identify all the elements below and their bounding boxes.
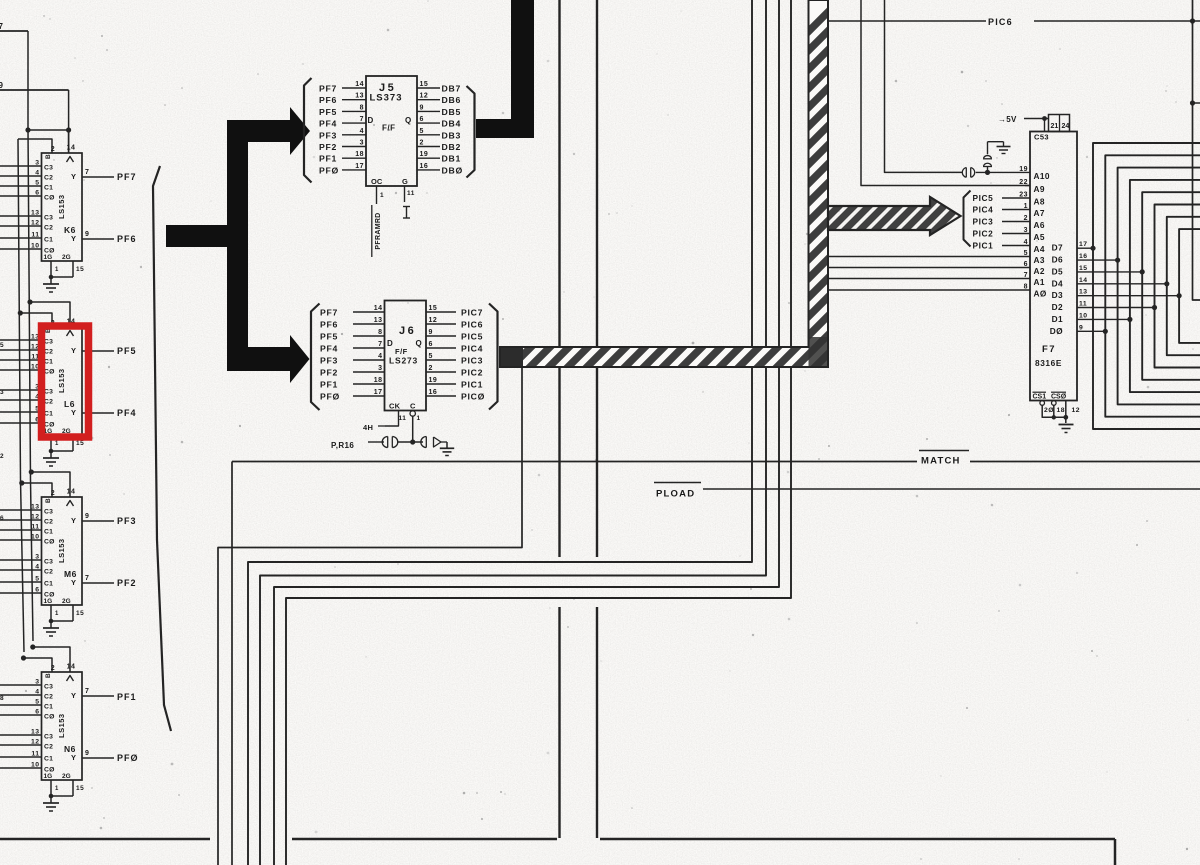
svg-text:18: 18: [1057, 407, 1066, 414]
svg-text:11: 11: [31, 524, 39, 531]
F7 power pins box: [1049, 115, 1070, 132]
svg-text:8: 8: [378, 329, 382, 336]
bus wire (x752 to x248): [248, 0, 752, 865]
J5 input wire PF2 pin 3: [342, 146, 366, 148]
svg-text:4H: 4H: [363, 423, 373, 432]
svg-text:PF7: PF7: [320, 308, 338, 318]
svg-text:2Ø: 2Ø: [1044, 407, 1054, 414]
svg-text:PFØ: PFØ: [117, 753, 139, 763]
wire K6 pin14 drop: [68, 90, 70, 153]
svg-text:C1: C1: [44, 359, 53, 366]
svg-text:A6: A6: [1034, 220, 1045, 230]
svg-text:11: 11: [1079, 301, 1087, 308]
svg-text:Y: Y: [71, 578, 77, 587]
svg-text:2G: 2G: [62, 254, 71, 261]
wire x522 down-left-down: [218, 367, 522, 865]
connector pair on stub: [987, 167, 989, 172]
svg-text:PFRAMRD: PFRAMRD: [375, 212, 382, 249]
svg-text:13: 13: [31, 210, 40, 217]
svg-text:7: 7: [360, 116, 364, 123]
svg-text:2G: 2G: [62, 598, 71, 605]
svg-text:C2: C2: [44, 349, 53, 356]
svg-text:6: 6: [429, 341, 433, 348]
svg-text:C3: C3: [44, 734, 53, 741]
net 7 entry wire: [0, 30, 28, 32]
wire select cross y130: [28, 129, 69, 131]
J6 input wire PFØ pin 17: [353, 395, 385, 397]
J5 input wire PF5 pin 8: [342, 110, 366, 112]
signal PLOAD wire: [703, 488, 1200, 490]
svg-text:PF1: PF1: [117, 692, 137, 702]
wire PIC to F7: [1002, 233, 1030, 235]
mux K6 (LS153): [42, 153, 83, 261]
bus arrowhead to J5: [290, 107, 310, 155]
mux M6 (LS153): [42, 497, 83, 605]
bus wire vertical x597: [596, 0, 598, 557]
bus wire (x766 to x260): [260, 0, 766, 865]
svg-text:1G: 1G: [44, 598, 53, 605]
svg-text:A7: A7: [1034, 208, 1045, 218]
svg-text:C2: C2: [44, 519, 53, 526]
J6 input wire PF6 pin 13: [353, 323, 385, 325]
J5 right brace: [467, 86, 475, 178]
svg-text:1: 1: [55, 786, 59, 792]
svg-text:Y: Y: [71, 346, 77, 355]
svg-text:PF5: PF5: [320, 332, 338, 342]
latch J6 box: [385, 301, 427, 411]
junction: [985, 170, 990, 175]
wire select A branch: [33, 647, 70, 672]
junction: [66, 127, 71, 132]
svg-text:7: 7: [85, 169, 89, 176]
wire vertical x861 to A9: [861, 0, 1030, 186]
svg-text:11: 11: [407, 190, 415, 197]
svg-text:13: 13: [1079, 289, 1088, 296]
svg-text:B: B: [45, 498, 52, 503]
svg-text:12: 12: [31, 514, 40, 521]
svg-text:3: 3: [378, 365, 382, 372]
wire: [397, 441, 423, 443]
svg-text:PF1: PF1: [320, 380, 338, 390]
svg-text:14: 14: [67, 664, 76, 671]
svg-text:PF1: PF1: [319, 154, 337, 164]
data bus loop 2 (D): [1118, 168, 1200, 405]
J6 output wire PIC5 pin 9: [426, 335, 456, 337]
svg-text:F/F: F/F: [382, 124, 396, 133]
svg-text:PLOAD: PLOAD: [656, 489, 695, 500]
svg-text:Y: Y: [71, 691, 77, 700]
svg-text:F7: F7: [1042, 344, 1056, 355]
svg-text:6: 6: [35, 709, 39, 716]
svg-text:15: 15: [420, 81, 429, 88]
svg-text:C3: C3: [44, 339, 53, 346]
J5 output wire DB4 pin 6: [417, 122, 440, 124]
connector pair on A10: [965, 168, 967, 178]
svg-text:2: 2: [51, 665, 55, 672]
svg-text:16: 16: [420, 163, 429, 170]
svg-text:10: 10: [31, 762, 40, 769]
wire PIC to F7: [1002, 197, 1030, 199]
svg-text:19: 19: [429, 377, 438, 384]
svg-text:1: 1: [417, 415, 421, 422]
svg-text:Y: Y: [71, 516, 77, 525]
svg-text:3: 3: [360, 140, 364, 147]
svg-text:11: 11: [31, 751, 39, 758]
svg-text:LS273: LS273: [389, 356, 418, 366]
svg-text:CØ: CØ: [44, 714, 55, 721]
F7 ground: [1059, 424, 1074, 426]
svg-text:PF7: PF7: [319, 84, 337, 94]
svg-text:PIC6: PIC6: [461, 320, 483, 330]
svg-text:PF4: PF4: [320, 344, 338, 354]
ground (P,R16): [446, 442, 448, 448]
svg-text:PIC3: PIC3: [461, 356, 483, 366]
select bus vertical A: [28, 31, 33, 641]
svg-text:PIC5: PIC5: [461, 332, 483, 342]
J6 input wire PF3 pin 4: [353, 359, 385, 361]
svg-text:PF2: PF2: [320, 368, 338, 378]
svg-text:17: 17: [374, 389, 383, 396]
svg-text:16: 16: [429, 389, 438, 396]
signal PIC6 wire: [828, 20, 986, 22]
J5 output wire DB1 pin 19: [417, 157, 440, 159]
junction: [21, 655, 26, 660]
svg-text:PF6: PF6: [319, 95, 337, 105]
svg-text:19: 19: [420, 151, 429, 158]
svg-text:5: 5: [35, 576, 39, 583]
svg-text:DBØ: DBØ: [442, 165, 463, 175]
J6 input wire PF7 pin 14: [353, 311, 385, 313]
svg-text:C1: C1: [44, 704, 53, 711]
svg-text:C3: C3: [44, 684, 53, 691]
svg-text:A10: A10: [1034, 171, 1050, 181]
svg-text:7: 7: [85, 688, 89, 695]
J5 output wire DB7 pin 15: [417, 87, 440, 89]
ground (bypass): [1003, 142, 1005, 147]
svg-text:14: 14: [67, 489, 76, 496]
svg-text:C1: C1: [44, 411, 53, 418]
svg-text:14: 14: [67, 145, 76, 152]
svg-text:C2: C2: [44, 569, 53, 576]
wire K6 pin14 stub: [68, 130, 70, 153]
svg-text:15: 15: [76, 785, 84, 792]
J6 input wire PF5 pin 8: [353, 335, 385, 337]
J6 output wire PIC6 pin 12: [426, 323, 456, 325]
svg-text:LS373: LS373: [370, 93, 403, 104]
svg-text:6: 6: [420, 116, 424, 123]
J6 input wire PF2 pin 3: [353, 371, 385, 373]
svg-text:14: 14: [1079, 277, 1088, 284]
svg-text:A3: A3: [1034, 255, 1045, 265]
svg-text:PIC5: PIC5: [973, 193, 994, 203]
J5 output wire DB5 pin 9: [417, 110, 440, 112]
svg-text:18: 18: [374, 377, 383, 384]
svg-text:4: 4: [35, 564, 39, 571]
svg-text:A1: A1: [1034, 277, 1045, 287]
svg-text:DB1: DB1: [442, 154, 461, 164]
F7 pin 12: [1065, 401, 1067, 424]
junction: [18, 310, 23, 315]
svg-text:PFØ: PFØ: [320, 392, 340, 402]
svg-text:C3: C3: [44, 165, 53, 172]
J6 right brace: [489, 304, 498, 410]
svg-text:8: 8: [0, 695, 4, 702]
svg-text:2G: 2G: [62, 773, 71, 780]
J6 left brace: [311, 304, 320, 411]
svg-text:D6: D6: [1052, 255, 1063, 265]
svg-text:CØ: CØ: [44, 369, 55, 376]
svg-text:Q: Q: [405, 116, 412, 125]
svg-text:10: 10: [1079, 312, 1088, 319]
svg-text:C1: C1: [44, 237, 53, 244]
mux L6 (LS153): [42, 327, 83, 435]
bus wire vertical x559: [558, 0, 560, 557]
svg-text:15: 15: [1079, 265, 1088, 272]
svg-text:1: 1: [55, 441, 59, 447]
J5 output wire DBØ pin 16: [417, 169, 440, 171]
svg-text:C2: C2: [44, 399, 53, 406]
svg-text:13: 13: [31, 504, 40, 511]
svg-text:2: 2: [429, 365, 433, 372]
signal PFRAMRD (active low): [371, 205, 373, 257]
signal MATCH wire: [232, 461, 917, 463]
connector pair (P,R16): [387, 437, 389, 448]
svg-text:15: 15: [76, 440, 84, 447]
J6 output wire PIC7 pin 15: [426, 311, 456, 313]
svg-text:1G: 1G: [44, 773, 53, 780]
svg-text:C3: C3: [44, 215, 53, 222]
svg-text:C: C: [410, 402, 416, 411]
svg-text:CSØ: CSØ: [1051, 394, 1067, 401]
svg-text:4: 4: [360, 128, 364, 135]
wire address from hatched bus: [828, 278, 1030, 280]
data bus loop 1 (D): [1105, 155, 1200, 416]
mux N6 (LS153): [42, 672, 83, 780]
svg-text:LS153: LS153: [57, 368, 66, 393]
svg-text:LS153: LS153: [57, 713, 66, 738]
junction: [1190, 18, 1195, 23]
svg-text:PIC6: PIC6: [988, 17, 1013, 27]
junction: [25, 127, 30, 132]
svg-text:13: 13: [355, 93, 364, 100]
svg-text:PF3: PF3: [117, 516, 137, 526]
svg-text:A4: A4: [1034, 244, 1045, 254]
J6 output wire PIC2 pin 2: [426, 371, 456, 373]
data bus loop 0 (D): [1093, 143, 1200, 429]
F7 CS tie wire: [1042, 416, 1066, 418]
svg-text:C53: C53: [1034, 133, 1049, 142]
wire vertical x884 to A10: [885, 0, 963, 172]
svg-text:9: 9: [1079, 324, 1083, 331]
svg-text:AØ: AØ: [1034, 289, 1047, 299]
select bus vertical B: [18, 139, 24, 652]
J6 output wire PICØ pin 16: [426, 395, 456, 397]
svg-text:7: 7: [85, 575, 89, 582]
svg-text:9: 9: [85, 750, 89, 757]
svg-text:PIC7: PIC7: [461, 308, 483, 318]
svg-text:PF7: PF7: [117, 172, 137, 182]
svg-text:9: 9: [0, 81, 4, 90]
J5 left brace: [304, 78, 312, 183]
junction: [27, 299, 32, 304]
svg-text:3: 3: [35, 160, 39, 167]
svg-text:D1: D1: [1052, 314, 1063, 324]
svg-text:2: 2: [0, 453, 4, 460]
svg-text:9: 9: [85, 231, 89, 238]
svg-text:11: 11: [31, 232, 39, 239]
svg-text:OC: OC: [371, 177, 383, 186]
svg-text:PIC2: PIC2: [461, 368, 483, 378]
svg-text:PF4: PF4: [117, 408, 137, 418]
junction: [1042, 116, 1047, 121]
svg-text:PIC4: PIC4: [973, 204, 994, 214]
svg-text:5: 5: [429, 353, 433, 360]
svg-text:Y: Y: [71, 172, 77, 181]
J5 input wire PF1 pin 18: [342, 157, 366, 159]
wire +5V: [1024, 118, 1049, 120]
F7 CS0 pin bubble: [1052, 401, 1057, 406]
svg-text:CK: CK: [389, 402, 401, 411]
J6 output wire PIC3 pin 5: [426, 359, 456, 361]
svg-text:12: 12: [31, 220, 40, 227]
svg-text:4: 4: [35, 689, 39, 696]
J5 output wire DB3 pin 5: [417, 134, 440, 136]
wire K6 pin2 feed: [18, 139, 52, 153]
svg-text:LS153: LS153: [57, 194, 66, 219]
red annotation box (L6): [42, 326, 89, 437]
svg-text:PIC2: PIC2: [973, 228, 994, 238]
svg-text:C1: C1: [44, 529, 53, 536]
svg-text:PF5: PF5: [117, 346, 137, 356]
junction: [30, 644, 35, 649]
svg-text:9: 9: [420, 104, 424, 111]
svg-text:19: 19: [1019, 166, 1028, 173]
svg-text:1: 1: [380, 192, 384, 199]
wire A9 stub: [1025, 185, 1030, 187]
svg-text:D: D: [387, 339, 393, 348]
svg-text:4: 4: [35, 170, 39, 177]
svg-text:5: 5: [35, 180, 39, 187]
bus trunk vertical: [227, 120, 248, 371]
svg-text:C1: C1: [44, 185, 53, 192]
svg-text:DB2: DB2: [442, 142, 461, 152]
junction: [1190, 100, 1195, 105]
svg-text:2: 2: [420, 140, 424, 147]
svg-text:1G: 1G: [44, 254, 53, 261]
svg-text:15: 15: [76, 610, 84, 617]
svg-text:C1: C1: [44, 756, 53, 763]
svg-text:DB5: DB5: [442, 107, 461, 117]
svg-text:J6: J6: [399, 325, 416, 337]
svg-text:12: 12: [429, 317, 438, 324]
wire: [441, 441, 447, 443]
svg-text:18: 18: [355, 151, 364, 158]
svg-text:DB3: DB3: [442, 130, 461, 140]
svg-text:A9: A9: [1034, 184, 1045, 194]
wire select B branch: [20, 313, 52, 327]
svg-text:11: 11: [399, 415, 407, 422]
bus arrowhead to J6: [290, 335, 310, 383]
svg-text:2: 2: [51, 146, 55, 153]
svg-text:B: B: [45, 154, 52, 159]
J5 input wire PF3 pin 4: [342, 134, 366, 136]
wire select B branch: [22, 483, 52, 497]
svg-text:Y: Y: [71, 408, 77, 417]
F7 CS1 pin bubble: [1040, 401, 1045, 406]
J5 input wire PF4 pin 7: [342, 122, 366, 124]
J6 output wire PIC4 pin 6: [426, 347, 456, 349]
svg-text:15: 15: [76, 266, 84, 273]
svg-text:10: 10: [31, 534, 40, 541]
net 9 entry wire: [0, 89, 69, 91]
svg-text:CØ: CØ: [44, 195, 55, 202]
svg-text:PIC4: PIC4: [461, 344, 483, 354]
svg-text:PF6: PF6: [320, 320, 338, 330]
svg-text:PF3: PF3: [320, 356, 338, 366]
svg-text:5: 5: [0, 342, 4, 349]
wire address from hatched bus: [828, 289, 1030, 291]
svg-text:PF2: PF2: [319, 142, 337, 152]
wire to connector: [368, 441, 384, 443]
svg-text:5: 5: [35, 699, 39, 706]
svg-text:PF5: PF5: [319, 107, 337, 117]
svg-text:7: 7: [378, 341, 382, 348]
svg-text:17: 17: [355, 163, 364, 170]
svg-text:PF2: PF2: [117, 578, 137, 588]
connector pair 2 with arrow: [425, 437, 427, 448]
J6 input wire PF1 pin 18: [353, 383, 385, 385]
bus arm to J5: [248, 120, 290, 142]
svg-text:PF4: PF4: [319, 119, 337, 129]
wire stub: [1193, 102, 1200, 104]
svg-text:MATCH: MATCH: [921, 456, 961, 467]
wire PIC to F7: [1002, 221, 1030, 223]
svg-text:8316E: 8316E: [1035, 358, 1062, 368]
svg-text:7: 7: [0, 22, 4, 31]
svg-text:6: 6: [0, 515, 4, 522]
wire right edge x1192: [1193, 0, 1200, 300]
svg-text:6: 6: [35, 190, 39, 197]
svg-text:13: 13: [374, 317, 383, 324]
svg-text:D3: D3: [1052, 290, 1063, 300]
svg-text:DB7: DB7: [442, 84, 461, 94]
J6 output wire PIC1 pin 19: [426, 383, 456, 385]
bus wire (x779 to x274): [274, 0, 779, 865]
junction: [410, 439, 415, 444]
svg-text:PIC1: PIC1: [461, 380, 483, 390]
svg-text:1: 1: [55, 267, 59, 273]
J6 input wire PF4 pin 7: [353, 347, 385, 349]
data bus loop 4 (D): [1142, 192, 1200, 380]
PIC group brace: [964, 191, 971, 247]
svg-text:A8: A8: [1034, 197, 1045, 207]
J5 input wire PF7 pin 14: [342, 87, 366, 89]
svg-text:C1: C1: [44, 581, 53, 588]
svg-text:D: D: [368, 116, 374, 125]
svg-text:12: 12: [31, 739, 40, 746]
svg-text:9: 9: [85, 513, 89, 520]
wire PIC to F7: [1002, 245, 1030, 247]
svg-text:5: 5: [420, 128, 424, 135]
svg-text:C3: C3: [44, 389, 53, 396]
svg-text:PF3: PF3: [319, 130, 337, 140]
svg-text:10: 10: [31, 243, 40, 250]
svg-text:C2: C2: [44, 225, 53, 232]
wire address from hatched bus: [828, 256, 1030, 258]
clock I mark: [403, 206, 410, 208]
wire select B branch: [24, 658, 53, 672]
wire select A branch: [30, 302, 70, 327]
